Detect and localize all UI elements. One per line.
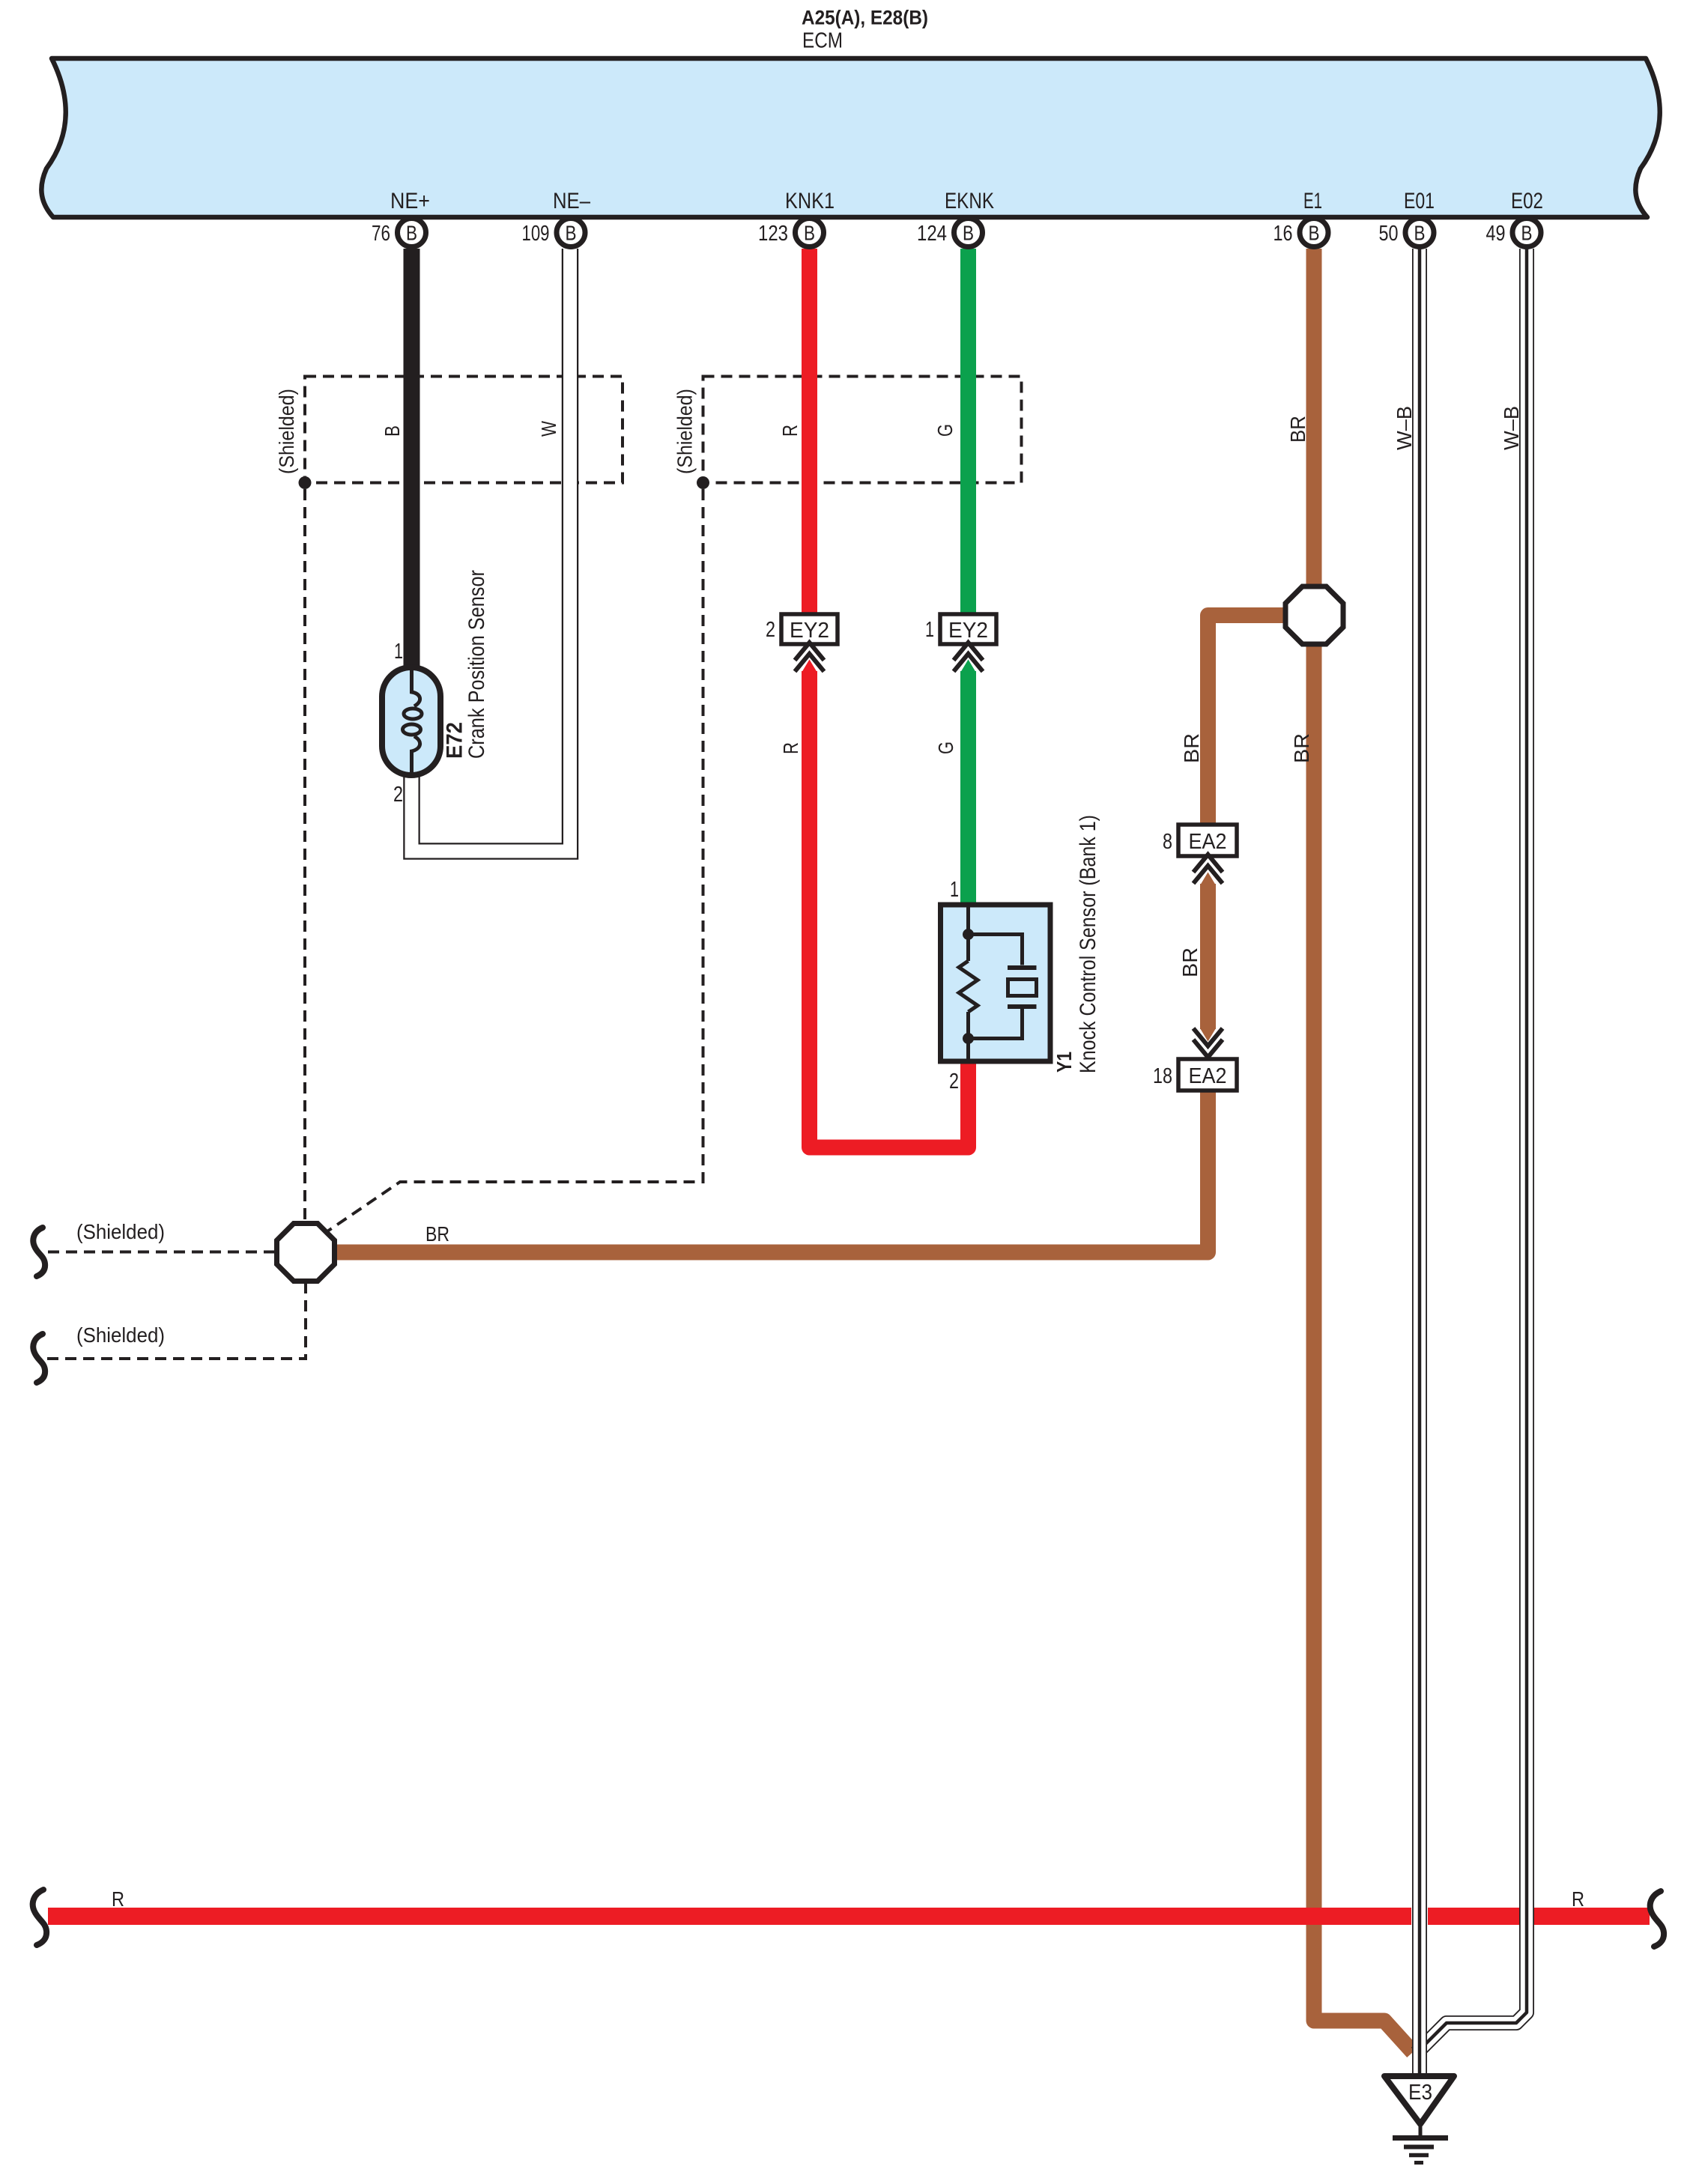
- wire BR (below EA2 8 to above EA2 18): [1200, 884, 1216, 1029]
- svg-text:123: 123: [758, 222, 788, 246]
- knock sensor junction dot top: [963, 929, 974, 940]
- svg-text:G: G: [933, 424, 957, 437]
- svg-text:Knock Control Sensor (Bank 1): Knock Control Sensor (Bank 1): [1076, 815, 1100, 1073]
- svg-text:BR: BR: [1286, 416, 1309, 443]
- break squiggle (shielded lead upper): [33, 1228, 45, 1276]
- shielded dashed lead (left lower): [46, 1282, 306, 1359]
- svg-text:1: 1: [925, 618, 934, 642]
- wire G (EY2 to knock sensor pin 1): [960, 671, 976, 910]
- ground stem: [1419, 2124, 1423, 2135]
- svg-text:2: 2: [949, 1070, 959, 1093]
- svg-text:50: 50: [1379, 222, 1399, 246]
- knock sensor internal wire pin1 to resistor: [966, 907, 970, 961]
- ground bar 1: [1393, 2135, 1448, 2141]
- svg-text:W–B: W–B: [1500, 406, 1523, 450]
- shield drain dashed wire (left, down to octagon): [303, 489, 306, 1221]
- svg-text:NE–: NE–: [553, 189, 590, 213]
- svg-text:E02: E02: [1511, 189, 1543, 213]
- wire W (NE- to crank sensor pin 2): [412, 249, 571, 852]
- svg-text:76: 76: [372, 222, 390, 246]
- svg-text:R: R: [778, 425, 802, 437]
- svg-text:124: 124: [917, 222, 947, 246]
- svg-text:A25(A), E28(B): A25(A), E28(B): [802, 7, 928, 29]
- svg-text:1: 1: [394, 640, 403, 664]
- pin 123 B connector circle: [796, 219, 824, 247]
- svg-text:B: B: [963, 222, 974, 245]
- svg-text:(Shielded): (Shielded): [275, 389, 298, 474]
- knock sensor resistor: [959, 961, 978, 1012]
- svg-text:NE+: NE+: [390, 189, 430, 213]
- svg-text:(Shielded): (Shielded): [76, 1323, 165, 1347]
- wire BR (EA2 18 down, corner, to shield octagon): [334, 1090, 1208, 1252]
- ECM connector box A25(A),E28(B): [41, 58, 1659, 217]
- svg-text:ECM: ECM: [802, 29, 843, 53]
- wire BR tip below EA2 8 connector: [1200, 873, 1216, 886]
- pin 109 B connector circle: [557, 219, 585, 247]
- svg-text:BR: BR: [1180, 733, 1203, 763]
- wire BR branch (octagon to EA2 8): [1208, 616, 1286, 825]
- pin 124 B connector circle: [954, 219, 983, 247]
- wire G EKNK (pin 124 to EY2): [960, 249, 976, 616]
- svg-text:E72: E72: [443, 722, 467, 759]
- crank position sensor E72 body: [382, 667, 440, 775]
- svg-text:B: B: [566, 222, 577, 245]
- svg-text:109: 109: [522, 222, 550, 246]
- pin 50 B connector circle: [1405, 219, 1434, 247]
- wire W-B E01 (pin 50 down to ground E3): [1412, 249, 1427, 2075]
- svg-text:49: 49: [1486, 222, 1506, 246]
- svg-text:W: W: [537, 421, 560, 437]
- wire R KNK1 (pin 123 to EY2): [802, 249, 817, 616]
- svg-text:BR: BR: [1178, 947, 1202, 977]
- wire G tip below EY2 connector: [960, 660, 976, 673]
- svg-text:18: 18: [1153, 1064, 1172, 1088]
- svg-text:16: 16: [1273, 222, 1293, 246]
- shield box junction dot 2: [697, 476, 709, 489]
- shield dashed box (crank sensor wires): [305, 377, 623, 483]
- wire R bus (bottom rail, segment 1): [48, 1908, 1411, 1925]
- chevrons EY2 pin 2: [795, 643, 824, 672]
- pin 49 B connector circle: [1512, 219, 1541, 247]
- ground E3 triangle: [1384, 2076, 1454, 2124]
- shield box junction dot: [299, 476, 312, 489]
- svg-text:KNK1: KNK1: [785, 189, 835, 213]
- ground bar 3: [1409, 2153, 1429, 2158]
- svg-text:R: R: [1572, 1887, 1584, 1911]
- crank sensor pickup coil: [403, 670, 422, 772]
- svg-text:G: G: [934, 741, 957, 754]
- knock sensor internal wire resistor to pin2: [966, 1012, 970, 1059]
- svg-text:R: R: [779, 742, 802, 754]
- wire R bus (segment 2): [1428, 1908, 1519, 1925]
- pin 76 B connector circle: [398, 219, 426, 247]
- wire R bus (segment 3): [1534, 1908, 1650, 1925]
- svg-text:B: B: [804, 222, 815, 245]
- knock sensor piezo bottom plate: [1008, 1004, 1037, 1009]
- svg-text:B: B: [406, 222, 417, 245]
- wire B (NE+ to crank sensor pin 1): [404, 249, 420, 670]
- shield drain dashed wire (knock, down then to octagon): [327, 489, 703, 1231]
- knock sensor piezo branch top: [969, 935, 1023, 965]
- break squiggle (red bus left): [33, 1890, 46, 1945]
- connector EY2 pin 1 (green wire): [940, 614, 996, 644]
- svg-text:Y1: Y1: [1053, 1052, 1076, 1073]
- wire BR tip above EA2 18 connector: [1200, 1028, 1216, 1042]
- svg-text:E3: E3: [1408, 2081, 1432, 2105]
- knock control sensor Y1 body: [941, 905, 1051, 1061]
- connector EA2 pin 18: [1178, 1059, 1237, 1091]
- svg-text:2: 2: [766, 618, 775, 642]
- svg-text:B: B: [1309, 222, 1320, 245]
- wire BR E1 main (pin 16 down, bottom corner to ground): [1314, 249, 1413, 2052]
- chevrons EY2 pin 1: [954, 643, 983, 672]
- svg-text:B: B: [1414, 222, 1426, 245]
- svg-text:R: R: [112, 1887, 124, 1911]
- svg-text:8: 8: [1163, 830, 1172, 854]
- svg-text:E1: E1: [1303, 189, 1322, 213]
- svg-text:W–B: W–B: [1393, 406, 1416, 450]
- shielded dashed lead (left upper): [48, 1251, 277, 1254]
- splice node octagon on E1 wire: [1285, 586, 1343, 644]
- knock sensor piezo top plate: [1008, 965, 1037, 970]
- chevrons EA2 pin 18: [1193, 1028, 1223, 1058]
- chevrons EA2 pin 8: [1193, 855, 1223, 884]
- svg-text:Crank Position Sensor: Crank Position Sensor: [464, 570, 489, 759]
- pin 16 B connector circle: [1300, 219, 1328, 247]
- knock sensor junction dot bottom: [963, 1033, 974, 1044]
- svg-text:B: B: [381, 425, 404, 437]
- break squiggle (shielded lead lower): [33, 1334, 45, 1383]
- svg-text:BR: BR: [1290, 733, 1313, 763]
- svg-text:B: B: [1521, 222, 1533, 245]
- wire W-B E02 (pin 49 down, jog left into E01): [1417, 249, 1527, 2053]
- knock sensor piezo branch bottom: [969, 1009, 1023, 1039]
- svg-text:1: 1: [950, 878, 959, 902]
- knock sensor piezo crystal: [1008, 980, 1037, 996]
- connector EA2 pin 8: [1178, 825, 1237, 856]
- svg-text:(Shielded): (Shielded): [76, 1220, 165, 1243]
- svg-text:(Shielded): (Shielded): [673, 389, 697, 474]
- ground bar 2: [1404, 2145, 1434, 2150]
- svg-text:2: 2: [393, 783, 403, 807]
- svg-text:E01: E01: [1404, 189, 1435, 213]
- shield dashed box (knock sensor wire): [703, 377, 1022, 483]
- wire R (EY2 to knock sensor pin 2): [810, 671, 969, 1147]
- break squiggle (red bus right): [1650, 1891, 1664, 1947]
- wire R tip below EY2 connector: [802, 660, 817, 673]
- ground bar 4: [1414, 2161, 1423, 2165]
- shield ground node octagon: [277, 1224, 335, 1281]
- svg-text:EY2: EY2: [790, 619, 829, 643]
- svg-text:EA2: EA2: [1189, 830, 1227, 854]
- svg-text:EA2: EA2: [1189, 1064, 1227, 1088]
- svg-text:EKNK: EKNK: [945, 189, 994, 213]
- svg-text:EY2: EY2: [948, 619, 988, 643]
- connector EY2 pin 2 (red wire): [781, 614, 838, 644]
- svg-text:BR: BR: [425, 1222, 449, 1246]
